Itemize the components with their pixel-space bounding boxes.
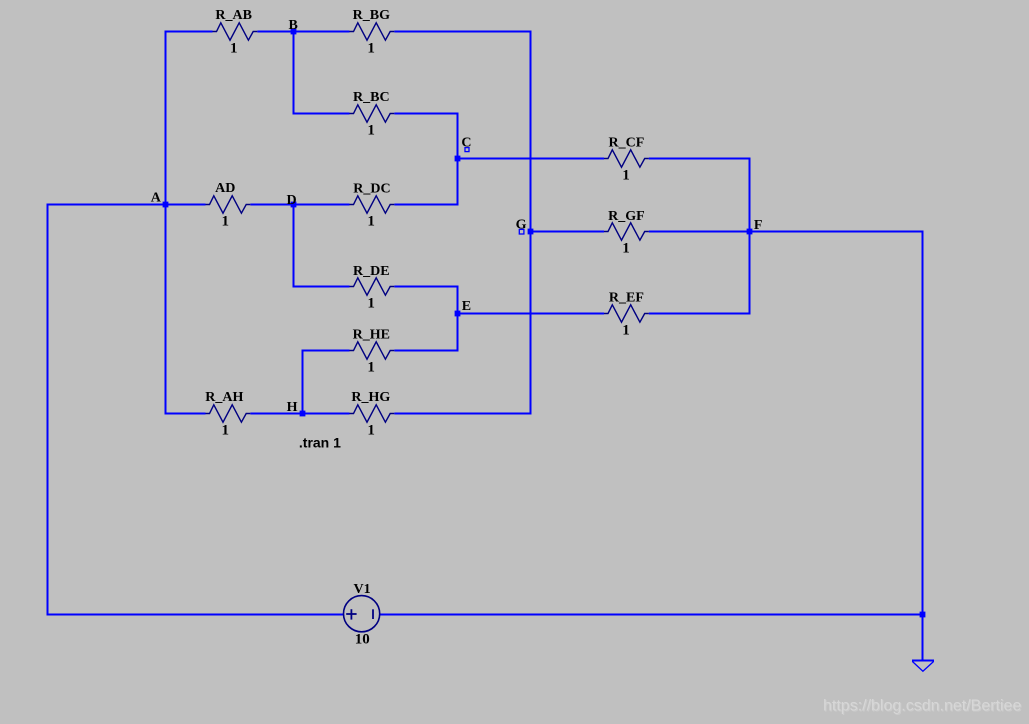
svg-text:R_BG: R_BG xyxy=(353,8,390,23)
resistor R_AH body xyxy=(206,405,251,422)
bottom right junction xyxy=(920,612,926,618)
resistor R_DC body xyxy=(350,196,395,213)
resistor R_AB body xyxy=(213,23,258,40)
svg-text:1: 1 xyxy=(622,241,630,257)
resistor R_CF body xyxy=(604,150,649,167)
wire CF right lead, F vertical, EF right lead xyxy=(649,159,750,314)
svg-text:1: 1 xyxy=(221,423,229,439)
svg-text:A: A xyxy=(151,191,162,206)
wire top row B segment xyxy=(257,31,349,33)
svg-text:1: 1 xyxy=(367,123,375,139)
wire G row left xyxy=(531,231,605,233)
wire G row right xyxy=(649,231,750,233)
wire DE right lead, E vertical, HE right lead xyxy=(394,287,457,351)
resistor R_GF body xyxy=(604,223,649,240)
svg-text:R_CF: R_CF xyxy=(609,135,645,150)
node C label xyxy=(461,136,471,152)
svg-text:E: E xyxy=(462,299,471,314)
wire A to left edge, down and along bottom to V1 xyxy=(48,205,344,615)
svg-text:F: F xyxy=(754,218,763,233)
node D junction xyxy=(291,202,297,208)
svg-text:1: 1 xyxy=(367,360,375,376)
svg-text:D: D xyxy=(287,193,297,208)
node F junction xyxy=(747,229,753,235)
node C junction xyxy=(455,156,461,162)
voltage source V1 xyxy=(344,596,380,632)
svg-text:AD: AD xyxy=(215,181,235,196)
svg-text:R_EF: R_EF xyxy=(609,291,644,306)
svg-text:R_HG: R_HG xyxy=(351,390,390,405)
svg-text:1: 1 xyxy=(367,214,375,230)
svg-text:R_HE: R_HE xyxy=(353,328,390,343)
wire BC right lead, C vertical, DC right lead xyxy=(394,114,457,205)
wire top row right, G vertical, HG right lead xyxy=(394,32,530,414)
svg-text:R_DE: R_DE xyxy=(353,264,390,279)
svg-text:1: 1 xyxy=(622,323,630,339)
node E junction xyxy=(455,311,461,317)
wire C row left xyxy=(458,158,605,160)
svg-text:R_AB: R_AB xyxy=(215,8,252,23)
svg-text:1: 1 xyxy=(622,168,630,184)
wire DC left lead xyxy=(294,204,350,206)
ground xyxy=(912,660,934,662)
node G junction xyxy=(528,229,534,235)
svg-text:1: 1 xyxy=(367,296,375,312)
resistor R_HG body xyxy=(350,405,395,422)
wire B down, BC left lead xyxy=(294,32,350,114)
resistor R_BC body xyxy=(350,105,395,122)
svg-text:R_GF: R_GF xyxy=(608,209,645,224)
wire E row left xyxy=(458,313,605,315)
wire F row right, right vertical, ground stub xyxy=(750,232,923,661)
wire top row left, A column vertical, AH lead xyxy=(166,32,213,414)
svg-text:.tran 1: .tran 1 xyxy=(299,435,341,451)
wire AH to H to HG xyxy=(250,413,349,415)
svg-text:B: B xyxy=(289,18,298,33)
svg-text:H: H xyxy=(287,400,298,415)
watermark xyxy=(823,698,1022,716)
resistor R_DE body xyxy=(350,278,395,295)
svg-text:R_BC: R_BC xyxy=(353,90,390,105)
resistor R_BG body xyxy=(350,23,395,40)
node A junction xyxy=(163,202,169,208)
wire A row mid xyxy=(166,204,206,206)
node B junction xyxy=(291,29,297,35)
svg-text:R_DC: R_DC xyxy=(353,182,390,197)
svg-text:V1: V1 xyxy=(354,582,371,597)
svg-text:G: G xyxy=(516,217,527,232)
wire H up, HE left lead xyxy=(303,351,350,414)
svg-text:R_AH: R_AH xyxy=(205,390,243,405)
svg-text:1: 1 xyxy=(221,214,229,230)
svg-text:10: 10 xyxy=(355,632,370,648)
resistor R_HE body xyxy=(350,342,395,359)
resistor AD body xyxy=(206,196,251,213)
wire bottom right from V1 xyxy=(380,614,923,616)
node H junction xyxy=(300,411,306,417)
svg-text:1: 1 xyxy=(367,41,375,57)
svg-text:1: 1 xyxy=(367,423,375,439)
node G label xyxy=(516,217,527,234)
wire AD to D, D down, DE left lead xyxy=(250,205,349,287)
svg-text:1: 1 xyxy=(230,41,238,57)
resistor R_EF body xyxy=(604,305,649,322)
svg-text:https://blog.csdn.net/Bertiee: https://blog.csdn.net/Bertiee xyxy=(823,698,1021,715)
